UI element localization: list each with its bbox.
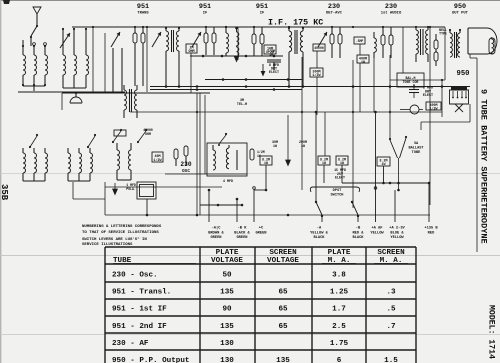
battery lead -B K: [236, 199, 238, 222]
audio transformer T4: [415, 26, 417, 28]
capacitor C5 .5 MFD: [354, 37, 365, 44]
wire vertical det: [301, 57, 303, 190]
svg-text:SWITCH: SWITCH: [331, 193, 344, 197]
wire C8 stem: [146, 199, 148, 215]
tone corrector box: [397, 73, 424, 87]
svg-text:ELECT: ELECT: [423, 94, 433, 98]
svg-text:RED &: RED &: [352, 231, 364, 235]
wire osc bottom: [165, 173, 247, 175]
svg-text:951 - Transl.: 951 - Transl.: [112, 289, 171, 297]
battery lead +C: [253, 190, 255, 222]
resistor R6 box: [114, 130, 126, 136]
svg-text:YELLOW &: YELLOW &: [310, 231, 328, 235]
battery cable plug: [451, 87, 467, 90]
resistor R5 2M OHM: [186, 44, 197, 53]
svg-text:VOLTAGE: VOLTAGE: [267, 257, 299, 265]
wire bottom bus C: [200, 204, 242, 206]
wire vertical out: [389, 55, 391, 140]
svg-text:TUBE: TUBE: [412, 151, 421, 155]
resistor R11: [318, 156, 330, 165]
tube V6 950 output pair: [434, 40, 438, 49]
svg-text:951 - 2nd IF: 951 - 2nd IF: [112, 323, 167, 331]
svg-text:4 MFD: 4 MFD: [223, 180, 233, 184]
tuning gang L8: [67, 148, 69, 153]
svg-text:RED: RED: [428, 231, 435, 235]
svg-text:6: 6: [337, 357, 342, 363]
svg-text:-A: -A: [317, 227, 322, 231]
oscillator tank L6: [207, 143, 247, 176]
svg-text:DPST: DPST: [333, 189, 342, 193]
coil L9: [237, 32, 239, 46]
svg-text:1W: 1W: [264, 161, 268, 165]
svg-text:230: 230: [328, 3, 340, 11]
svg-text:1/2W: 1/2W: [430, 106, 438, 110]
svg-text:GREEN: GREEN: [236, 236, 247, 240]
tuning capacitor C4 arrow: [318, 32, 327, 47]
wire C lead: [254, 189, 266, 191]
svg-text:TRANS: TRANS: [137, 11, 149, 15]
svg-text:230: 230: [385, 3, 397, 11]
svg-text:1W: 1W: [269, 53, 273, 57]
svg-text:1W: 1W: [273, 144, 277, 148]
svg-text:1.7: 1.7: [332, 306, 346, 314]
battery lead -A|C: [208, 190, 210, 222]
battery lead +A 2-3V: [394, 190, 396, 222]
tube V4 230 detector grid/plate: [330, 34, 334, 44]
tuning gang L7: [22, 148, 24, 153]
fold line 1: [0, 173, 500, 175]
resistor R2 volume control: [313, 44, 325, 51]
svg-text:SCREEN: SCREEN: [377, 249, 405, 257]
resistor R3 300M: [310, 68, 323, 77]
svg-text:130: 130: [220, 340, 234, 348]
speaker field coil: [489, 38, 495, 54]
wire top B+ bus: [72, 26, 445, 28]
svg-text:TEL-H: TEL-H: [237, 103, 247, 107]
tube V3 951 2nd IF grid/plate: [252, 34, 256, 44]
resistor R14: [377, 157, 390, 166]
pilot lamp: [410, 105, 419, 114]
DPST switch: [310, 187, 359, 192]
coil L4: [374, 38, 376, 52]
switch S1 wave band: [113, 131, 121, 142]
svg-text:IF: IF: [260, 11, 265, 15]
svg-text:I.F. 175 KC: I.F. 175 KC: [268, 18, 323, 28]
svg-text:-B K: -B K: [238, 227, 248, 231]
svg-text:2.5: 2.5: [332, 323, 346, 331]
svg-text:ELECT: ELECT: [269, 71, 279, 75]
svg-text:135: 135: [276, 357, 290, 363]
svg-text:BLUE &: BLUE &: [390, 231, 404, 235]
page top edge: [0, 0, 500, 2]
wire mid drops: [190, 53, 192, 93]
wire B+ lead bus: [342, 182, 429, 184]
svg-text:IF: IF: [203, 11, 208, 15]
wire bottom bus B: [105, 186, 222, 188]
tuning capacitor C1A arrow: [60, 33, 70, 48]
svg-text:951: 951: [137, 3, 149, 11]
svg-text:1W: 1W: [340, 161, 344, 165]
svg-text:TYPE: TYPE: [439, 32, 447, 36]
wire screen feeds: [146, 27, 148, 92]
capacitor block C8: [137, 182, 156, 199]
svg-text:130: 130: [220, 357, 234, 363]
svg-text:BALLAST: BALLAST: [408, 147, 424, 151]
capacitor C6: [61, 93, 63, 110]
wire V1 cathode: [112, 48, 114, 92]
arrow L9 ground: [234, 56, 239, 62]
resistor R13: [260, 156, 272, 165]
coil L3: [226, 33, 229, 53]
resistor R8 40M: [152, 152, 163, 162]
IF transformer T1: [165, 27, 167, 29]
antenna coil gang L1: [22, 46, 24, 55]
svg-text:TO THAT OF SERVICE ILLUSTRATIO: TO THAT OF SERVICE ILLUSTRATIONS: [82, 231, 159, 235]
svg-text:PLATE: PLATE: [328, 249, 351, 257]
wire plate drops: [92, 27, 94, 92]
svg-text:9 TUBE BATTERY SUPERHETERODYNE: 9 TUBE BATTERY SUPERHETERODYNE: [479, 89, 489, 244]
svg-text:951: 951: [199, 3, 211, 11]
resistor R1 10M half W: [264, 45, 276, 54]
wire vertical af: [375, 112, 377, 190]
svg-text:ELECT: ELECT: [335, 176, 345, 180]
svg-text:230 - Osc.: 230 - Osc.: [112, 272, 158, 280]
svg-text:VOLTAGE: VOLTAGE: [211, 257, 243, 265]
wire speaker return: [476, 58, 478, 252]
tube data table: [105, 247, 416, 363]
fold line 3: [0, 333, 500, 335]
svg-text:GREEN: GREEN: [210, 236, 221, 240]
svg-text:1W: 1W: [382, 162, 386, 166]
wire bus junctions: [196, 111, 198, 113]
wire det arrow: [262, 64, 264, 73]
tuning capacitor C2 arrow: [192, 32, 201, 47]
svg-text:950: 950: [454, 3, 466, 11]
wire vertical osc plate: [204, 95, 206, 174]
svg-text:DET-AVC: DET-AVC: [326, 11, 343, 15]
speaker: [468, 28, 497, 54]
switch S2: [138, 131, 146, 142]
arrow chassis: [113, 183, 118, 195]
battery lead +A &F: [375, 190, 377, 222]
resistor R4 400M 1W: [357, 55, 369, 63]
svg-text:PLATE: PLATE: [216, 249, 239, 257]
wire L1 top: [22, 40, 24, 46]
svg-text:35B: 35B: [0, 184, 9, 201]
filament bus dots: [165, 85, 168, 88]
svg-text:+A &F: +A &F: [371, 227, 382, 231]
svg-text:OHM: OHM: [188, 50, 194, 54]
resistor R10 400M: [426, 102, 441, 110]
svg-text:.7: .7: [386, 323, 396, 331]
lead terminals: [253, 187, 256, 190]
svg-text:-A|C: -A|C: [212, 226, 222, 231]
svg-text:951 - 1st IF: 951 - 1st IF: [112, 306, 167, 314]
svg-text:1W: 1W: [301, 144, 305, 148]
wire vertical B-2: [199, 93, 201, 215]
svg-text:YELLOW: YELLOW: [370, 231, 384, 235]
switch S3 osc: [219, 135, 226, 144]
capacitor C9 8MFD: [409, 89, 419, 91]
wire vertical av2: [315, 112, 317, 202]
svg-text:1.5: 1.5: [384, 357, 398, 363]
wire grid bus y56: [190, 55, 283, 57]
svg-text:SCREEN: SCREEN: [269, 249, 297, 257]
wire vertical filament: [287, 115, 289, 160]
wire vertical B-: [196, 93, 198, 215]
svg-text:65: 65: [278, 289, 288, 297]
svg-text:.3: .3: [386, 289, 396, 297]
svg-text:MODEL: 1714: MODEL: 1714: [487, 305, 496, 359]
ballast tube 3A: [390, 140, 398, 158]
tuning capacitor C1B arrow: [111, 32, 120, 47]
svg-text:40000: 40000: [314, 46, 324, 50]
wire resistor stems: [265, 165, 267, 190]
svg-text:BROWN &: BROWN &: [208, 231, 224, 235]
svg-text:+C: +C: [259, 227, 264, 231]
svg-text:TONE COR: TONE COR: [403, 80, 419, 84]
svg-text:GREEN: GREEN: [255, 231, 266, 235]
battery lead -A: [321, 216, 323, 222]
svg-text:950 - P.P. Output: 950 - P.P. Output: [112, 357, 189, 363]
tube V1 951 translator grid/plate: [133, 33, 137, 43]
svg-text:OSC: OSC: [182, 169, 190, 174]
output transformer T5: [450, 33, 452, 57]
svg-text:1st AUDIO: 1st AUDIO: [381, 11, 402, 15]
bus dots y215: [146, 214, 149, 217]
wire filament bus y86: [150, 86, 470, 88]
svg-text:+135 B: +135 B: [424, 227, 438, 231]
svg-text:1.75: 1.75: [330, 340, 349, 348]
tube V7 half-wave: [70, 97, 82, 103]
tube V2 951 1st IF grid/plate: [204, 33, 208, 43]
svg-text:1W: 1W: [322, 161, 326, 165]
oscillator coil L5: [116, 143, 118, 150]
band switch S5: [88, 136, 95, 147]
svg-text:BLACK: BLACK: [313, 236, 325, 240]
terminals L1: [33, 43, 36, 46]
resistor R12: [336, 156, 348, 165]
svg-text:65: 65: [278, 323, 288, 331]
svg-text:+A 2-3V: +A 2-3V: [389, 227, 405, 231]
svg-text:BLACK &: BLACK &: [234, 231, 250, 235]
wire AVC bus: [130, 111, 442, 113]
svg-text:YELLOW: YELLOW: [390, 236, 404, 240]
antenna: [33, 7, 41, 14]
svg-text:65: 65: [278, 306, 288, 314]
svg-text:.5MF: .5MF: [356, 39, 364, 43]
svg-text:135: 135: [220, 323, 234, 331]
shield box: [72, 182, 74, 199]
svg-text:-B: -B: [356, 227, 361, 231]
page left edge: [0, 0, 2, 363]
wire bottom bus A: [105, 214, 430, 216]
arrow ground: [286, 160, 291, 166]
tube V5 230 1st audio grid/plate: [381, 35, 385, 45]
IF transformer T2: [288, 27, 290, 29]
capacitor C3 8 MFD dry elect: [267, 59, 281, 61]
svg-text:POLA.: POLA.: [126, 187, 136, 191]
RF coil gang L2 with tuning capacitor C1A: [62, 28, 64, 30]
svg-text:OUT PUT: OUT PUT: [452, 11, 469, 15]
tube V8 230 oscillator electrodes: [174, 149, 178, 159]
wire cathode bus left: [18, 91, 125, 93]
wire bus y79: [205, 79, 302, 81]
svg-text:951: 951: [256, 3, 268, 11]
svg-text:.5: .5: [386, 306, 396, 314]
junction dots top bus: [92, 26, 94, 28]
resistor R9 half meg: [250, 149, 254, 160]
svg-text:1.25: 1.25: [330, 289, 349, 297]
svg-text:90: 90: [222, 306, 232, 314]
wire vertical bplus: [429, 27, 431, 205]
svg-text:NUMBERING & LETTERING CORRESPO: NUMBERING & LETTERING CORRESPONDS: [82, 225, 162, 229]
svg-text:3.8: 3.8: [332, 272, 346, 280]
antenna switch: [31, 26, 37, 36]
svg-text:950: 950: [457, 70, 470, 78]
wire filament bus y89: [150, 89, 302, 91]
svg-text:50: 50: [222, 272, 232, 280]
svg-text:SWITCH LEVERS ARE LUG'S" IN: SWITCH LEVERS ARE LUG'S" IN: [82, 237, 147, 242]
svg-text:230: 230: [180, 161, 191, 168]
fold line 2: [0, 255, 500, 257]
svg-text:230 - AF: 230 - AF: [112, 340, 149, 348]
svg-text:1/2W: 1/2W: [153, 158, 162, 163]
wire plug drop: [469, 104, 471, 122]
IF transformer T3: [124, 90, 127, 110]
wire vertical av: [324, 112, 326, 156]
band switch S4: [30, 136, 37, 147]
svg-text:OHM: OHM: [145, 132, 151, 136]
corner mark: [3, 0, 10, 4]
tuning capacitor C1C arrow: [152, 32, 161, 47]
wire vertical audio: [352, 60, 354, 208]
battery lead -B: [357, 216, 359, 222]
battery lead +135 B: [428, 183, 430, 222]
svg-text:BLACK: BLACK: [352, 236, 364, 240]
svg-text:135: 135: [220, 289, 234, 297]
